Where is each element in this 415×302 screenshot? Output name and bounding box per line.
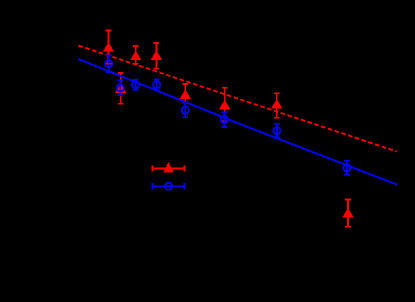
blue data point B6 <box>221 112 228 127</box>
legend blue entry: circle with horizontal error bar <box>153 183 185 190</box>
blue data point B7 <box>273 124 280 138</box>
blue solid fit line <box>78 59 397 185</box>
blue data point B4 <box>153 79 160 90</box>
blue data point B8 <box>343 161 350 175</box>
blue data point B5 <box>182 103 189 118</box>
blue data point B2 <box>117 81 124 96</box>
blue data point B1 <box>105 56 112 73</box>
red data point R4 <box>115 73 126 104</box>
red data point R2 <box>130 46 141 64</box>
red data point R5 <box>180 84 191 114</box>
red data point R1 <box>103 30 114 63</box>
red data point R6 <box>219 88 230 122</box>
red data point R3 <box>151 43 162 69</box>
blue data point B3 <box>132 80 139 90</box>
legend red entry: triangle with horizontal error bar <box>153 162 185 173</box>
red dashed fit line <box>79 46 397 152</box>
red data point R7 <box>271 93 282 118</box>
red data point R8 <box>342 200 353 227</box>
